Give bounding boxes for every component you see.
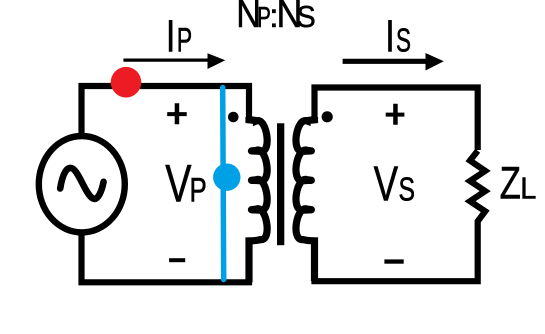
current arrow Is [343,59,428,64]
transformer secondary winding L2 [296,117,315,281]
current arrow Ip [123,59,210,62]
svg-text:Z: Z [500,157,521,209]
resistor ZL zigzag and wire secondary loop bottom [315,151,486,281]
svg-text:L: L [520,172,536,206]
plus sign primary [167,103,187,124]
svg-text:V: V [374,158,399,212]
wire primary loop left-top-right (node + side) [82,86,250,134]
svg-text:P: P [177,21,192,60]
minus sign primary [169,258,185,262]
polarity dot primary [228,112,239,123]
polarity dot secondary [322,111,333,122]
transformer primary winding L1 [249,117,267,282]
svg-text:I: I [385,11,394,62]
AC source V1 [39,136,125,232]
red probe dot node A [111,67,142,98]
minus sign secondary [384,259,403,263]
svg-text:S: S [399,172,416,208]
svg-text:V: V [165,154,191,213]
blue probe line across Vp [223,88,224,280]
AC sine wave [60,168,103,199]
svg-text:S: S [297,0,316,34]
svg-text:S: S [396,22,411,60]
transformer core [277,123,284,245]
svg-text:I: I [166,11,175,62]
wire primary loop left-bottom-right (node - side) [82,235,250,282]
blue probe dot [213,164,240,191]
plus sign secondary [386,104,405,125]
svg-text:P: P [190,171,207,209]
wire secondary loop left-top-right (node + side) [315,88,478,151]
